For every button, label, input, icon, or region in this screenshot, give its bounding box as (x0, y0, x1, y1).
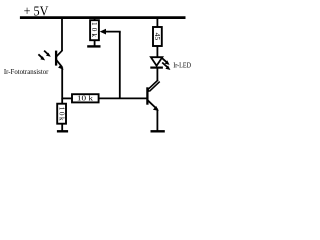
wire emitter of Q2 to ground (156, 110, 158, 131)
potentiometer P1 10k (90, 18, 99, 46)
transistor Q1 Ir-Fototransistor (56, 50, 64, 69)
wire wiper horizontal (104, 31, 121, 33)
ground terminal of R2 (57, 130, 68, 132)
label Ir-Fototransistor (4, 67, 49, 76)
transistor Q2 collector double stroke (148, 80, 160, 91)
wire collector of Q1 to rail (61, 18, 63, 51)
svg-text:10 k: 10 k (77, 94, 93, 103)
transistor Q2 base bar (146, 87, 148, 104)
light arrow 2 into Q1 (38, 54, 45, 60)
wire +5V rail (20, 16, 186, 19)
svg-text:10k: 10k (90, 22, 98, 37)
wire rail to R4 (156, 18, 158, 27)
LED emission arrow 1 (161, 57, 169, 65)
label +5V (24, 4, 49, 19)
svg-text:45: 45 (153, 33, 162, 41)
light arrow 1 into Q1 (44, 51, 51, 57)
label Ir-LED (173, 60, 191, 69)
ground terminal of Q2 emitter (151, 130, 165, 132)
LED emission arrow 2 (162, 63, 170, 71)
wire emitter of Q1 down to node A (61, 67, 63, 99)
wire LED cathode to collector of Q2 (156, 68, 158, 81)
svg-text:Ir-LED: Ir-LED (173, 60, 191, 69)
LED D1 Ir-LED (150, 57, 163, 67)
resistor R4 45 vertical (153, 27, 162, 57)
open terminal of P1 (87, 45, 100, 47)
svg-text:Ir-Fototransistor: Ir-Fototransistor (4, 67, 49, 76)
resistor R2 10k vertical (57, 98, 66, 131)
resistor R3 10 k horizontal (72, 94, 99, 103)
node B junction wiper wire / base wire (119, 32, 121, 99)
wiper arrow of P1 (100, 29, 106, 35)
wire R3 to node B and base of Q2 (99, 97, 148, 99)
node A junction emitter/R2/R3 (62, 97, 72, 99)
svg-text:10k: 10k (57, 107, 65, 121)
transistor Q2 emitter (148, 100, 159, 111)
